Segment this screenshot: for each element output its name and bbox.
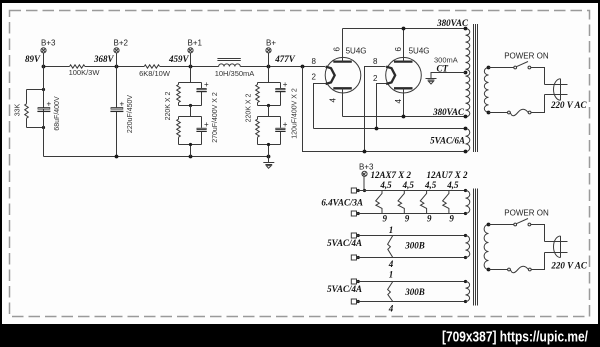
plug P1 220 V AC	[545, 79, 588, 111]
svg-text:5VAC/6A: 5VAC/6A	[430, 136, 465, 146]
fuse F2	[489, 269, 508, 271]
resistor 100K/3W	[70, 65, 85, 68]
resistor 220K X 2 (upper, B+1 branch)	[165, 83, 202, 121]
wire	[268, 145, 270, 157]
wire B+2 branch	[116, 67, 118, 157]
svg-text:+: +	[120, 99, 125, 108]
svg-text:220 V AC: 220 V AC	[550, 261, 588, 271]
node B+1 filter branch	[190, 67, 192, 83]
ground (filter)	[263, 157, 274, 169]
svg-text:4: 4	[388, 304, 394, 314]
svg-text:+: +	[204, 120, 209, 129]
svg-text:CT: CT	[437, 63, 449, 73]
svg-text:368V: 368V	[93, 54, 115, 64]
V1 plate (pin 4)	[333, 87, 352, 89]
wire	[190, 145, 192, 157]
svg-text:B+2: B+2	[114, 38, 129, 47]
svg-text:+: +	[283, 120, 288, 129]
svg-text:6.4VAC/3A: 6.4VAC/3A	[321, 198, 363, 208]
svg-text:4: 4	[329, 98, 338, 103]
fuse F1	[489, 112, 508, 114]
wire bus segment	[160, 66, 219, 68]
svg-text:33K: 33K	[15, 103, 22, 116]
node B+ filter branch	[268, 67, 270, 83]
V2 pin 6 lead	[403, 29, 405, 62]
svg-text:POWER ON: POWER ON	[504, 209, 549, 218]
svg-text:9: 9	[405, 214, 410, 224]
svg-text:12AU7 X 2: 12AU7 X 2	[427, 170, 469, 180]
svg-text:10H/350mA: 10H/350mA	[215, 69, 255, 78]
filament wire 3 (300B #2 top)	[351, 279, 467, 284]
filament of 300B #2	[388, 270, 425, 314]
V1 filament	[326, 67, 335, 84]
transformer T2 5VAC winding #2	[466, 282, 470, 302]
V2 pin 4 lead	[403, 88, 405, 116]
svg-text:B+1: B+1	[188, 38, 203, 47]
filament wire 1 (300B #1 top)	[351, 233, 467, 238]
transformer T1 secondary HT winding	[466, 29, 470, 117]
svg-text:68uF/400V: 68uF/400V	[54, 96, 61, 131]
heater of 12AX7 #1	[376, 180, 392, 224]
svg-text:220K X 2: 220K X 2	[246, 93, 253, 122]
svg-text:5U4G: 5U4G	[346, 46, 367, 55]
transformer T2 6.4VAC/3A winding	[466, 191, 470, 214]
svg-text:9: 9	[382, 214, 387, 224]
svg-text:+: +	[47, 99, 52, 108]
svg-text:4,5: 4,5	[402, 180, 415, 190]
tube V2 5U4G	[365, 29, 430, 152]
V2 pin 2 wire	[377, 84, 387, 129]
svg-text:6: 6	[333, 47, 342, 52]
V1 pin 4 lead	[342, 88, 344, 116]
inductor 10H/350mA	[219, 64, 241, 67]
capacitor 120uF/400V X 2 (lower)	[275, 88, 298, 144]
capacitor 270uF/400V X 2 (lower)	[196, 92, 219, 144]
capacitor 270uF/400V X 2 (upper)	[196, 80, 209, 105]
svg-text:220uF/450V: 220uF/450V	[127, 95, 134, 133]
terminal B+3	[25, 38, 56, 66]
transformer T1 5VAC/6A winding	[466, 129, 470, 152]
filament wire 2 (300B #1 bottom)	[351, 255, 467, 260]
resistor 6K8/10W	[144, 65, 159, 68]
wire	[268, 106, 270, 117]
wire B+ bus segment left	[44, 66, 70, 68]
wire filament bottom / B+ takeoff (pins 8) to T1 5V winding	[303, 67, 466, 152]
transformer T2 5VAC winding #1	[466, 236, 470, 258]
svg-text:B+3: B+3	[41, 38, 56, 47]
T1 center tap CT	[464, 71, 468, 75]
filament of 300B #1	[388, 225, 425, 269]
svg-text:9: 9	[449, 214, 454, 224]
svg-text:120uF/400V X 2: 120uF/400V X 2	[292, 88, 299, 139]
heater of 12AX7 #2	[398, 180, 414, 224]
wire filament top (pins 2) to T1 5V winding	[314, 128, 466, 130]
resistor 220K X 2 (upper, B+ branch)	[246, 83, 281, 123]
capacitor 220uF/450V	[110, 95, 134, 133]
wire	[190, 106, 192, 117]
svg-text:4: 4	[388, 259, 394, 269]
wire 380VAC bottom (plates to T1)	[343, 116, 466, 118]
svg-text:+: +	[204, 80, 209, 89]
svg-text:459V: 459V	[168, 54, 190, 64]
svg-text:9: 9	[427, 214, 432, 224]
svg-text:1: 1	[389, 225, 394, 235]
terminal B+1	[168, 38, 203, 66]
V2 pin 8 wire	[365, 67, 386, 152]
svg-text:477V: 477V	[274, 54, 296, 64]
svg-text:1: 1	[389, 270, 394, 280]
transformer T1 core	[474, 24, 478, 152]
resistor 33K	[27, 90, 44, 128]
V1 pin 2 wire	[314, 84, 326, 129]
svg-text:270uF/400V X 2: 270uF/400V X 2	[212, 92, 219, 143]
wire 380VAC top (plates to T1)	[343, 28, 466, 30]
ground (CT)	[426, 79, 437, 85]
svg-text:POWER ON: POWER ON	[504, 51, 549, 60]
svg-text:5VAC/4A: 5VAC/4A	[327, 284, 362, 294]
svg-text:8: 8	[312, 57, 317, 66]
terminal B+	[266, 38, 296, 66]
capacitor 120uF/400V X 2 (upper)	[275, 80, 288, 105]
svg-text:4: 4	[394, 99, 403, 104]
terminal B+2	[93, 38, 129, 66]
resistor 220K X 2 (lower, B+1 branch)	[177, 117, 202, 145]
heater of 12AU7 #1	[420, 180, 436, 224]
V2 plate (pin 4)	[394, 87, 413, 89]
svg-text:220K X 2: 220K X 2	[165, 91, 172, 120]
svg-text:2: 2	[312, 73, 317, 82]
transformer T1 primary	[484, 68, 488, 113]
tube V1 5U4G	[312, 29, 367, 129]
svg-text:+: +	[283, 80, 288, 89]
svg-text:6K8/10W: 6K8/10W	[139, 69, 171, 78]
heater wire 1 (6.4VAC top)	[351, 188, 467, 193]
svg-text:380VAC: 380VAC	[436, 18, 469, 28]
svg-text:5U4G: 5U4G	[409, 46, 430, 55]
svg-text:4,5: 4,5	[379, 180, 392, 190]
capacitor 68uF/400V	[37, 67, 61, 157]
svg-text:6: 6	[394, 47, 403, 52]
svg-text:89V: 89V	[25, 54, 41, 64]
svg-text:12AX7 X 2: 12AX7 X 2	[371, 170, 412, 180]
transformer T2 core	[474, 189, 478, 306]
wire bus segment to tube V1	[240, 66, 325, 68]
svg-text:300B: 300B	[404, 287, 425, 297]
svg-text:8: 8	[373, 57, 378, 66]
svg-text:B+: B+	[266, 38, 276, 47]
heater of 12AU7 #2	[443, 180, 459, 224]
svg-text:300B: 300B	[404, 241, 425, 251]
terminal B+3 (heater bias)	[359, 163, 374, 192]
svg-text:5VAC/4A: 5VAC/4A	[327, 238, 362, 248]
junction dots on bus	[42, 65, 46, 69]
V1 plate (pin 6)	[333, 60, 352, 62]
wire left rail	[43, 67, 45, 157]
wire bus segment	[85, 66, 144, 68]
svg-text:4,5: 4,5	[446, 180, 459, 190]
svg-text:2: 2	[373, 74, 378, 83]
svg-text:4,5: 4,5	[424, 180, 437, 190]
plug P2 220 V AC	[545, 236, 588, 271]
svg-text:[709x387] https://upic.me/: [709x387] https://upic.me/	[442, 330, 588, 346]
V1 pin 6 lead	[342, 29, 344, 62]
V2 filament	[386, 67, 395, 84]
svg-text:100K/3W: 100K/3W	[69, 68, 101, 77]
V2 plate (pin 6)	[394, 60, 413, 62]
svg-text:220 V AC: 220 V AC	[550, 100, 588, 110]
heater wire 2 (6.4VAC bottom)	[351, 211, 467, 216]
svg-text:380VAC: 380VAC	[432, 107, 465, 117]
filament wire 4 (300B #2 bottom)	[351, 299, 467, 304]
resistor 220K X 2 (lower, B+ branch)	[256, 117, 281, 145]
wire bottom bus	[44, 156, 269, 158]
transformer T2 primary	[484, 225, 488, 270]
